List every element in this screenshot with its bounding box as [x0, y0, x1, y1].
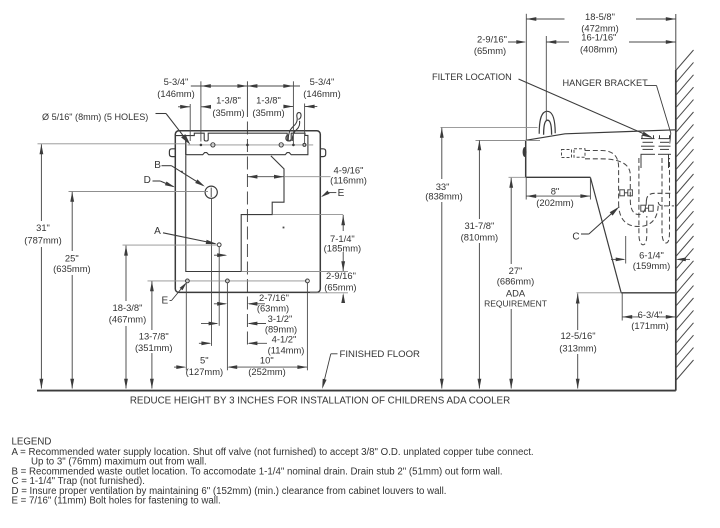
svg-text:(146mm): (146mm) — [303, 88, 341, 99]
left side ear tab — [169, 149, 175, 157]
svg-text:16-1/16": 16-1/16" — [581, 32, 616, 43]
trap U dashed — [619, 203, 659, 227]
svg-text:18-5/8": 18-5/8" — [585, 11, 615, 22]
svg-text:4-1/2": 4-1/2" — [272, 334, 297, 345]
rivet circle left — [211, 143, 215, 147]
bracket legs — [640, 155, 642, 169]
tick 6-1/4 — [625, 236, 627, 264]
dim 4-1/2 — [199, 342, 210, 344]
arrow 1-3/8 R1 — [283, 105, 293, 109]
leader hanger — [646, 85, 657, 87]
dim 1-3/8 left — [178, 106, 190, 108]
dim 4-9/16 — [247, 176, 284, 178]
cabinet outer panel (front view) — [175, 131, 320, 293]
plate hole left keyhole — [185, 136, 187, 155]
dim 2-7/16 — [214, 303, 226, 305]
arrow 5-3/4 right-left — [247, 84, 257, 88]
svg-text:E: E — [338, 188, 345, 199]
waste stub dashed — [562, 150, 572, 158]
bubbler (side view) — [539, 111, 555, 134]
arrow extra row — [214, 254, 226, 256]
svg-text:HANGER BRACKET: HANGER BRACKET — [563, 78, 649, 88]
leader B — [162, 165, 172, 167]
extension line hole 4 — [200, 81, 202, 141]
svg-text:2-9/16": 2-9/16" — [477, 33, 507, 44]
svg-text:3-1/2": 3-1/2" — [268, 313, 293, 324]
dim 12-5/16 — [577, 294, 579, 331]
side bottom edge — [621, 292, 676, 294]
svg-text:E: E — [161, 295, 168, 306]
tick 6-3/4 — [621, 293, 623, 321]
dim 13-7/8 — [151, 281, 153, 330]
side ear blob — [523, 147, 527, 157]
ext 33in — [441, 126, 538, 128]
dim line 5-3/4 pair — [191, 85, 300, 87]
dim 3-1/2 — [201, 323, 217, 325]
plate centre line (holes row) — [188, 144, 314, 146]
mounting hole centre dot — [246, 144, 249, 147]
spot weld dot mid-right — [283, 227, 285, 229]
wall line — [675, 70, 677, 391]
bottom hole 3 — [306, 279, 310, 283]
svg-text:31": 31" — [36, 222, 50, 233]
svg-text:FINISHED FLOOR: FINISHED FLOOR — [340, 349, 421, 360]
mounting hole small right — [303, 143, 306, 146]
svg-text:(635mm): (635mm) — [53, 263, 91, 274]
svg-text:LEGEND: LEGEND — [12, 436, 52, 447]
svg-text:5": 5" — [200, 354, 209, 365]
dim 10in — [229, 366, 308, 368]
svg-text:(63mm): (63mm) — [257, 302, 289, 313]
svg-text:A: A — [154, 226, 161, 237]
svg-text:25": 25" — [65, 252, 79, 263]
wall hatching — [676, 50, 694, 71]
leader C — [581, 233, 589, 235]
svg-text:6-3/4": 6-3/4" — [638, 309, 663, 320]
arrow 5-3/4 left-right — [237, 84, 247, 88]
svg-text:2-9/16": 2-9/16" — [326, 270, 356, 281]
svg-text:Ø 5/16" (8mm) (5 HOLES): Ø 5/16" (8mm) (5 HOLES) — [42, 112, 148, 122]
svg-text:(467mm): (467mm) — [109, 314, 147, 325]
svg-text:10": 10" — [260, 354, 274, 365]
hole3 drop line — [306, 283, 308, 371]
dim 27in — [510, 178, 512, 264]
rivet circle right — [279, 143, 283, 147]
svg-text:(171mm): (171mm) — [631, 320, 669, 331]
svg-text:(686mm): (686mm) — [497, 275, 535, 286]
dim 31-7/8 — [478, 140, 480, 219]
svg-text:(838mm): (838mm) — [425, 190, 463, 201]
leader finished floor — [331, 353, 338, 355]
trap elbow dashed — [585, 151, 619, 204]
dim 5in — [174, 366, 185, 368]
svg-text:1-3/8": 1-3/8" — [216, 95, 241, 106]
ext line outer bottom — [310, 292, 348, 294]
svg-text:(185mm): (185mm) — [324, 243, 362, 254]
ext line step — [273, 214, 344, 216]
ext 31-7/8 — [476, 140, 541, 142]
svg-text:18-3/8": 18-3/8" — [113, 302, 143, 313]
dim 18-3/8 — [125, 246, 127, 301]
drain standpipe dashed — [639, 158, 647, 245]
trap arm dashed — [646, 193, 672, 201]
svg-text:12-5/16": 12-5/16" — [560, 330, 595, 341]
extension line hole 5 — [189, 104, 191, 141]
svg-text:B: B — [154, 160, 161, 171]
waste outlet circle B — [205, 186, 217, 198]
hole2 drop line — [226, 283, 228, 371]
side lower diagonal — [590, 177, 621, 292]
svg-text:13-7/8": 13-7/8" — [139, 331, 169, 342]
dim 6-1/4 — [611, 258, 624, 260]
hanger bracket comb — [641, 138, 655, 140]
svg-text:1-3/8": 1-3/8" — [256, 95, 281, 106]
dim 2-9/16 top — [508, 41, 525, 43]
svg-text:(202mm): (202mm) — [536, 197, 574, 208]
leader filter — [519, 79, 651, 137]
side front face — [525, 140, 527, 177]
svg-text:(351mm): (351mm) — [135, 342, 173, 353]
svg-text:(35mm): (35mm) — [252, 107, 284, 118]
svg-text:FILTER LOCATION: FILTER LOCATION — [432, 72, 512, 82]
arrow 1-3/8 L1 — [180, 105, 190, 109]
tick 8in left — [525, 178, 527, 200]
dim 33in — [441, 128, 443, 179]
mounting hole h2 dot — [200, 144, 203, 147]
dim 6-3/4 — [622, 316, 640, 318]
svg-text:(787mm): (787mm) — [24, 234, 62, 245]
arrow 5-3/4 left-left — [201, 84, 211, 88]
right side ear tab — [320, 149, 326, 157]
union fitting right — [641, 205, 646, 211]
inner panel with step cut-out — [186, 155, 284, 271]
svg-text:8": 8" — [551, 185, 560, 196]
bottom holes line — [148, 280, 308, 282]
ext line 18-3/8 — [123, 244, 218, 246]
dim 25in — [71, 192, 73, 251]
leader diameter — [156, 113, 167, 115]
tick 16-1/16 — [545, 36, 547, 121]
leader D — [153, 180, 161, 182]
dim 31in — [40, 144, 42, 221]
svg-text:(408mm): (408mm) — [580, 44, 618, 55]
svg-text:(313mm): (313mm) — [559, 342, 597, 353]
ext line 31in — [38, 143, 186, 145]
tick 8in right — [589, 178, 591, 200]
svg-text:(65mm): (65mm) — [324, 282, 356, 293]
dim 7-1/4 — [342, 215, 344, 231]
svg-text:REQUIREMENT: REQUIREMENT — [484, 299, 547, 309]
floor line — [37, 390, 676, 392]
svg-text:(146mm): (146mm) — [157, 88, 195, 99]
mounting hole bubbler dot — [292, 144, 295, 147]
side view top edge — [526, 130, 676, 141]
spot weld dot upper-left — [181, 171, 183, 173]
svg-text:5-3/4": 5-3/4" — [310, 76, 335, 87]
svg-text:2-7/16": 2-7/16" — [259, 292, 289, 303]
supply drop line — [218, 247, 220, 326]
underside ext — [509, 176, 526, 178]
leader E right — [328, 192, 336, 194]
tick 18-5/8 — [525, 14, 527, 141]
hole1 drop line — [185, 283, 187, 371]
side bottom ext — [577, 292, 622, 294]
supply circle A — [217, 243, 221, 247]
dim 2-9/16 right — [342, 295, 344, 302]
svg-text:D: D — [144, 175, 151, 186]
arrow 1-3/8 L2 — [201, 105, 211, 109]
dim 8in — [526, 195, 590, 197]
arrow 1-3/8 R2 — [305, 105, 315, 109]
bubbler (front view) — [288, 113, 301, 141]
svg-text:E = 7/16" (11mm) Bolt holes fo: E = 7/16" (11mm) Bolt holes for fastenin… — [12, 496, 221, 507]
leader A — [163, 233, 215, 244]
svg-text:C: C — [572, 232, 579, 243]
svg-text:6-1/4": 6-1/4" — [639, 249, 664, 260]
dim 16-1/16 — [546, 41, 569, 43]
union fitting left — [620, 190, 625, 196]
side underside — [526, 176, 591, 178]
bottom hole 1 — [186, 279, 190, 283]
svg-text:REDUCE HEIGHT BY 3 INCHES FOR: REDUCE HEIGHT BY 3 INCHES FOR INSTALLATI… — [130, 396, 510, 407]
dim 1-3/8 right — [284, 106, 294, 108]
svg-text:ADA: ADA — [506, 287, 526, 298]
svg-text:(65mm): (65mm) — [474, 45, 506, 56]
svg-text:(810mm): (810mm) — [461, 231, 499, 242]
svg-text:5-3/4": 5-3/4" — [164, 76, 189, 87]
waste drop line — [211, 198, 213, 346]
svg-text:(35mm): (35mm) — [212, 107, 244, 118]
leader E left — [170, 300, 172, 302]
extension line bubbler hole — [292, 81, 294, 144]
dim 18-5/8 — [526, 18, 564, 20]
arrow 5-3/4 right-right — [283, 84, 293, 88]
wall extension line — [675, 14, 677, 70]
svg-text:(159mm): (159mm) — [633, 260, 671, 271]
svg-text:(252mm): (252mm) — [248, 366, 286, 377]
centerline (vertical) — [246, 81, 248, 104]
svg-text:(127mm): (127mm) — [186, 366, 224, 377]
svg-text:(116mm): (116mm) — [330, 174, 367, 185]
ext line inner bottom — [242, 271, 348, 273]
mounting plate outline — [176, 133, 308, 155]
ext line 25in — [69, 191, 209, 193]
svg-text:31-7/8": 31-7/8" — [464, 220, 494, 231]
bottom hole 2 — [226, 279, 230, 283]
extension line small hole — [304, 104, 306, 144]
